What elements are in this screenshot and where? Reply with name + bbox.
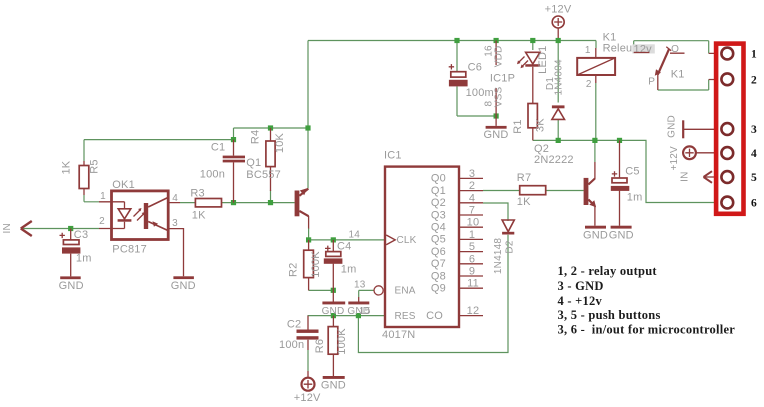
svg-text:2N2222: 2N2222 bbox=[534, 154, 574, 166]
svg-text:C4: C4 bbox=[337, 240, 351, 252]
svg-text:R4: R4 bbox=[250, 130, 262, 144]
svg-text:CLK: CLK bbox=[397, 235, 417, 246]
svg-text:Q4: Q4 bbox=[431, 222, 446, 234]
wire R4 bottom bbox=[270, 190, 272, 203]
svg-text:R6: R6 bbox=[314, 339, 326, 353]
svg-text:3, 5 - push buttons: 3, 5 - push buttons bbox=[558, 308, 661, 322]
resistor R4 bbox=[250, 128, 287, 191]
svg-text:ENA: ENA bbox=[395, 286, 416, 297]
wire rail to Q1 emitter bbox=[307, 41, 309, 189]
svg-text:GND: GND bbox=[59, 280, 84, 292]
ground below R2/C4 node bbox=[322, 290, 346, 317]
svg-text:Q2: Q2 bbox=[431, 197, 446, 209]
svg-text:Releu: Releu bbox=[603, 43, 633, 55]
relay contact K1 bbox=[634, 44, 685, 90]
svg-text:3: 3 bbox=[469, 168, 475, 180]
wire Q1out pin2 to R7 to Q2 base bbox=[483, 190, 584, 192]
resistor R1 bbox=[512, 67, 546, 141]
resistor R3 bbox=[190, 188, 221, 222]
wire LED1 branch bbox=[532, 41, 534, 51]
svg-text:Q6: Q6 bbox=[431, 246, 446, 258]
resistor R5 bbox=[61, 159, 101, 195]
resistor R2 bbox=[287, 240, 321, 291]
svg-text:C3: C3 bbox=[74, 229, 88, 241]
transistor Q2 2N2222 bbox=[534, 143, 596, 226]
svg-text:+12V: +12V bbox=[545, 4, 572, 16]
ground below Q2 bbox=[583, 226, 608, 242]
svg-text:10: 10 bbox=[467, 217, 480, 229]
svg-text:P: P bbox=[648, 76, 655, 87]
svg-text:9: 9 bbox=[469, 266, 475, 278]
relay coil K1 bbox=[577, 31, 655, 90]
svg-text:100K: 100K bbox=[336, 328, 348, 355]
svg-text:+12V: +12V bbox=[669, 146, 680, 171]
wire ENA pin13 to gnd bbox=[359, 290, 374, 297]
wire R3 to Q1 base bbox=[180, 202, 295, 204]
capacitor C3 bbox=[60, 229, 92, 277]
svg-text:R7: R7 bbox=[517, 172, 531, 184]
wire Q1 collector to CLK pin14 bbox=[309, 228, 385, 240]
wire RES to D2 cathode loop bbox=[358, 235, 508, 353]
wire C6 branch to VSS bbox=[457, 41, 496, 117]
svg-text:VSS: VSS bbox=[494, 86, 505, 107]
svg-text:1K: 1K bbox=[517, 196, 531, 208]
connector X1 frame bbox=[716, 44, 743, 214]
svg-text:10K: 10K bbox=[274, 132, 286, 153]
wire relay pin2 down bbox=[595, 83, 597, 140]
ground at ENA pin bbox=[347, 297, 370, 317]
svg-text:2: 2 bbox=[586, 79, 592, 90]
svg-text:1: 1 bbox=[469, 229, 475, 241]
wire C2 to +12V stem mid bbox=[307, 350, 309, 371]
svg-text:D2: D2 bbox=[505, 240, 516, 253]
svg-text:3 - GND: 3 - GND bbox=[558, 279, 604, 293]
IC IC1 4017N bbox=[349, 150, 484, 342]
svg-text:R2: R2 bbox=[287, 263, 299, 277]
svg-text:IC1: IC1 bbox=[384, 150, 402, 162]
power part IC1P bbox=[484, 41, 516, 117]
svg-text:5: 5 bbox=[751, 172, 757, 184]
optocoupler OK1 PC817 bbox=[99, 179, 180, 256]
capacitor C2 bbox=[279, 316, 319, 351]
wire R2 bottom to gnd node bbox=[309, 289, 334, 291]
svg-text:2: 2 bbox=[469, 180, 475, 192]
svg-text:IN: IN bbox=[2, 223, 13, 233]
pad 5 bbox=[721, 171, 733, 183]
node IN left input arrow bbox=[2, 221, 32, 236]
pad stubs 1,2 bbox=[709, 53, 717, 79]
capacitor C5 bbox=[611, 140, 643, 225]
svg-text:3: 3 bbox=[172, 218, 178, 229]
svg-text:1m: 1m bbox=[341, 264, 357, 276]
svg-text:3: 3 bbox=[751, 124, 757, 136]
ground below IC1P bbox=[483, 116, 508, 141]
svg-text:100K: 100K bbox=[310, 251, 322, 278]
wire upper bias net bbox=[84, 128, 308, 161]
svg-text:LED1: LED1 bbox=[537, 46, 549, 74]
diode D2 1N4148 bbox=[493, 220, 516, 274]
svg-text:GND: GND bbox=[483, 129, 508, 141]
svg-text:GND: GND bbox=[609, 230, 634, 242]
svg-text:100n: 100n bbox=[200, 169, 225, 181]
svg-text:2: 2 bbox=[99, 216, 105, 227]
svg-text:1: 1 bbox=[100, 191, 106, 202]
svg-text:Q1: Q1 bbox=[246, 157, 261, 169]
svg-text:11: 11 bbox=[467, 278, 479, 290]
svg-text:4 - +12v: 4 - +12v bbox=[558, 294, 603, 308]
node IN arrow at pad5 bbox=[680, 171, 717, 183]
pad 1 bbox=[721, 48, 733, 60]
svg-text:IC1P: IC1P bbox=[490, 72, 515, 84]
svg-text:1K: 1K bbox=[192, 210, 206, 222]
wire Q2out pin4 to D2 anode bbox=[483, 203, 508, 221]
svg-text:6: 6 bbox=[751, 198, 757, 210]
svg-text:1, 2 - relay output: 1, 2 - relay output bbox=[558, 264, 658, 278]
svg-text:C2: C2 bbox=[287, 319, 301, 331]
svg-text:1m: 1m bbox=[76, 253, 92, 265]
svg-text:2: 2 bbox=[751, 75, 757, 87]
pad 6 bbox=[721, 197, 733, 209]
svg-text:1K: 1K bbox=[61, 160, 73, 174]
pad 3 bbox=[721, 123, 733, 135]
svg-text:R5: R5 bbox=[88, 159, 100, 173]
ground at pad3 bbox=[667, 115, 718, 138]
svg-text:GND: GND bbox=[583, 230, 608, 242]
svg-text:GND: GND bbox=[667, 115, 678, 138]
svg-text:R3: R3 bbox=[190, 188, 204, 200]
notes legend text bbox=[558, 264, 736, 336]
svg-text:OK1: OK1 bbox=[112, 179, 135, 191]
capacitor C1 bbox=[200, 140, 245, 203]
ground OK1 pin3 bbox=[168, 229, 196, 293]
LED LED1 bbox=[517, 46, 549, 74]
svg-text:12v: 12v bbox=[634, 43, 653, 55]
pad 4 bbox=[721, 147, 733, 159]
wire contact to pads 1,2 bbox=[634, 41, 709, 90]
resistor R6 bbox=[314, 316, 348, 376]
svg-text:3, 6 - in/out for microcontro: 3, 6 - in/out for microcontroller bbox=[558, 322, 736, 336]
svg-text:7: 7 bbox=[469, 205, 475, 217]
svg-text:GND: GND bbox=[321, 379, 346, 391]
svg-text:1: 1 bbox=[751, 49, 757, 61]
svg-text:C1: C1 bbox=[211, 141, 225, 153]
svg-text:1m: 1m bbox=[627, 191, 643, 203]
svg-text:C5: C5 bbox=[625, 166, 639, 178]
wire D1 branch bbox=[557, 41, 559, 141]
diode D1 1N4004 bbox=[545, 59, 565, 119]
svg-text:Q5: Q5 bbox=[431, 234, 446, 246]
svg-text:R1: R1 bbox=[512, 119, 524, 133]
svg-text:BC557: BC557 bbox=[246, 169, 281, 181]
ground below C5 bbox=[609, 226, 634, 242]
svg-text:4: 4 bbox=[469, 192, 475, 204]
svg-text:Q0: Q0 bbox=[431, 173, 446, 185]
svg-text:+12V: +12V bbox=[294, 392, 321, 404]
svg-text:4: 4 bbox=[172, 193, 178, 204]
svg-text:5: 5 bbox=[469, 241, 475, 253]
svg-text:K1: K1 bbox=[671, 69, 685, 81]
capacitor C6 bbox=[449, 62, 494, 100]
wire relay low side node bbox=[533, 140, 716, 202]
svg-text:GND: GND bbox=[322, 306, 345, 317]
svg-text:Q3: Q3 bbox=[431, 209, 446, 221]
svg-text:3K: 3K bbox=[535, 118, 547, 132]
wire Q2 collector up bbox=[594, 140, 596, 162]
wire RES pin15 net bbox=[308, 315, 386, 317]
svg-text:6: 6 bbox=[469, 253, 475, 265]
+12V supply symbol bottom (C2) bbox=[294, 371, 321, 404]
svg-text:IN: IN bbox=[680, 171, 691, 181]
svg-text:O: O bbox=[671, 44, 679, 55]
svg-text:14: 14 bbox=[349, 230, 361, 241]
svg-text:100n: 100n bbox=[279, 339, 304, 351]
resistor R7 bbox=[517, 172, 546, 208]
+12V supply symbol top bbox=[545, 4, 572, 41]
capacitor C4 bbox=[324, 240, 357, 290]
pad numbers bbox=[751, 49, 757, 210]
svg-text:K1: K1 bbox=[603, 31, 617, 43]
svg-text:100m: 100m bbox=[466, 87, 494, 99]
+12V symbol at pad4 bbox=[669, 146, 717, 171]
svg-text:4017N: 4017N bbox=[382, 329, 415, 341]
svg-text:13: 13 bbox=[354, 280, 366, 291]
svg-text:CO: CO bbox=[426, 310, 443, 322]
ground below C3 bbox=[59, 276, 84, 292]
svg-text:Q1: Q1 bbox=[431, 185, 446, 197]
wire +12V top rail bbox=[308, 41, 596, 49]
svg-text:VDD: VDD bbox=[494, 46, 505, 68]
wire IN to OK1 pin2 bbox=[21, 228, 99, 230]
pad 2 bbox=[721, 73, 733, 85]
svg-text:Q7: Q7 bbox=[431, 258, 446, 270]
svg-text:Q8: Q8 bbox=[431, 270, 446, 282]
svg-text:1N4004: 1N4004 bbox=[553, 59, 564, 95]
svg-text:15: 15 bbox=[359, 306, 371, 317]
svg-text:1N4148: 1N4148 bbox=[493, 238, 504, 274]
svg-text:RES: RES bbox=[395, 311, 416, 322]
ground below R6 bbox=[321, 376, 346, 391]
transistor Q1 BC557 bbox=[246, 157, 308, 228]
svg-text:PC817: PC817 bbox=[112, 244, 147, 256]
svg-text:C6: C6 bbox=[468, 62, 482, 74]
svg-text:GND: GND bbox=[171, 280, 196, 292]
wire OK1 pin1 to R5 bbox=[84, 195, 99, 202]
svg-text:1: 1 bbox=[585, 45, 591, 56]
svg-text:Q9: Q9 bbox=[431, 283, 446, 295]
svg-text:4: 4 bbox=[751, 148, 757, 160]
svg-text:12: 12 bbox=[467, 305, 480, 317]
